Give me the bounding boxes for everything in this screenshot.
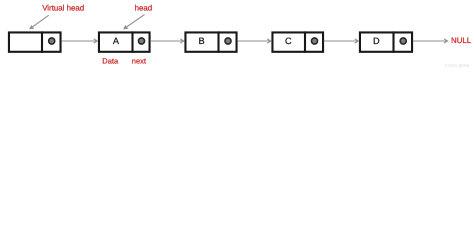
svg-text:C: C bbox=[285, 36, 292, 46]
svg-text:NULL: NULL bbox=[451, 36, 472, 45]
svg-text:next: next bbox=[132, 57, 147, 66]
svg-text:CSDN @tl58: CSDN @tl58 bbox=[445, 63, 470, 68]
svg-text:Data: Data bbox=[102, 57, 119, 66]
svg-text:Virtual head: Virtual head bbox=[42, 4, 84, 13]
svg-text:head: head bbox=[135, 4, 153, 13]
svg-text:B: B bbox=[199, 36, 205, 46]
svg-text:A: A bbox=[113, 36, 120, 46]
svg-text:D: D bbox=[373, 36, 380, 46]
